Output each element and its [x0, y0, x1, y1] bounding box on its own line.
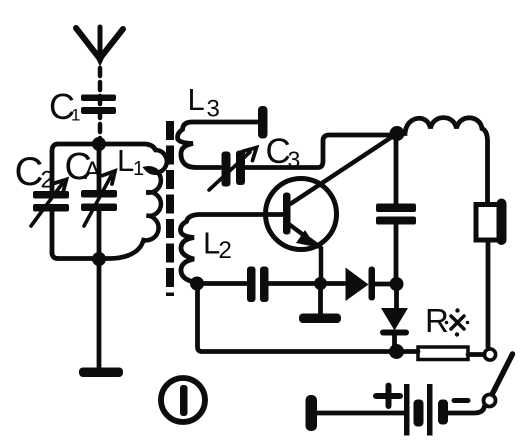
- label C3: [266, 132, 301, 173]
- plus sign: [376, 386, 400, 407]
- wire: [317, 411, 404, 416]
- capacitor coupling: [247, 267, 269, 303]
- label R*: [425, 302, 469, 339]
- svg-text:1: 1: [133, 158, 144, 180]
- wire antenna lead (dashed): [98, 68, 103, 140]
- node collector/RFC: [390, 126, 405, 141]
- wire bottom rail: [52, 253, 128, 259]
- capacitor C2 (variable): [31, 180, 69, 227]
- wire C3 to top node: [245, 135, 392, 168]
- switch lever: [493, 354, 513, 394]
- label L2: [203, 226, 232, 265]
- inductor L1: [128, 150, 167, 256]
- svg-text:L: L: [188, 82, 205, 117]
- wire cap to diode: [268, 281, 344, 286]
- label C1: [49, 86, 80, 127]
- svg-text:C: C: [15, 150, 44, 194]
- wire CA bottom to rail: [97, 211, 102, 259]
- svg-text:1: 1: [71, 106, 80, 125]
- node A top of tank: [92, 137, 106, 151]
- ground (emitter): [299, 314, 341, 324]
- node L2 bottom: [190, 277, 204, 291]
- wire node up to bypass cap: [394, 225, 399, 284]
- label C2: [15, 150, 54, 194]
- switch terminal 2: [484, 395, 496, 407]
- node detector: [390, 277, 404, 291]
- diode D1 (horizontal): [346, 267, 376, 302]
- label CA: [65, 146, 102, 188]
- figure number (1): [161, 378, 205, 422]
- earphone: [476, 199, 507, 246]
- capacitor bypass: [376, 204, 416, 225]
- wire node to D2: [394, 284, 399, 308]
- L3 terminal plate: [258, 106, 268, 139]
- inductor RFC: [397, 118, 488, 204]
- wire node to coupling cap: [197, 281, 246, 286]
- svg-text:2: 2: [41, 167, 54, 194]
- antenna: [76, 27, 123, 65]
- emitter: [290, 225, 321, 283]
- wire bottom rail (detector to L2): [198, 284, 397, 352]
- svg-text:R: R: [425, 302, 449, 339]
- node bottom of tank: [92, 252, 106, 266]
- battery: [306, 384, 485, 436]
- transistor Q1: [266, 134, 398, 284]
- capacitor C3 (variable): [209, 148, 257, 191]
- diode D2 (vertical): [380, 308, 409, 349]
- svg-text:A: A: [84, 157, 101, 185]
- node at resistor: [389, 344, 404, 359]
- wire top rail right to L1: [99, 144, 156, 150]
- svg-text:3: 3: [207, 96, 220, 123]
- transformer core (dashed): [166, 121, 174, 296]
- wire top rail left to C2 branch: [52, 144, 99, 191]
- left terminal plate: [306, 395, 318, 431]
- capacitor CA (variable): [81, 171, 117, 226]
- inductor L2: [181, 215, 284, 284]
- wire emitter node to ground: [318, 284, 323, 315]
- wire to ground: [97, 259, 102, 368]
- wire cap up to node: [394, 134, 399, 204]
- wire diode to node: [375, 282, 390, 287]
- label L1: [117, 143, 144, 180]
- wire C2 bottom to rail: [50, 211, 55, 253]
- switch terminal 1: [484, 349, 495, 360]
- ground: [79, 368, 123, 378]
- wire resistor to switch terminal: [468, 352, 484, 357]
- capacitor C1: [81, 95, 116, 115]
- resistor R: [418, 347, 468, 360]
- wire node to resistor: [397, 349, 419, 354]
- cell plates: [404, 384, 410, 436]
- minus sign: [454, 398, 468, 403]
- label L3: [188, 82, 220, 123]
- wire CA branch from node: [97, 151, 102, 190]
- wire to switch: [448, 406, 485, 413]
- collector line to node: [291, 134, 397, 204]
- svg-text:L: L: [117, 143, 134, 178]
- svg-text:2: 2: [219, 237, 232, 264]
- node emitter junction: [314, 277, 327, 290]
- wire earphone to switch: [486, 240, 491, 347]
- inductor L3: [178, 106, 268, 168]
